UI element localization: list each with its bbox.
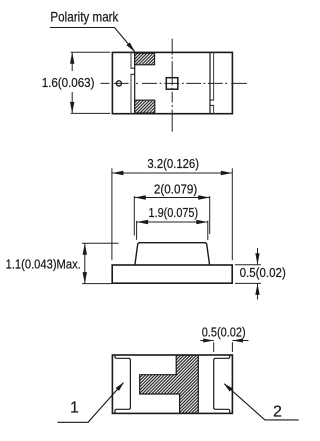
left notch cap upper: [131, 67, 135, 69]
pin 1 arrowhead: [116, 382, 124, 391]
svg-text:1.1(0.043)Max.: 1.1(0.043)Max.: [6, 257, 81, 272]
dimension 0.5 bottom arrow line right: [232, 340, 248, 342]
right inner electrode line: [209, 52, 211, 113]
dimension 2 line: [134, 197, 209, 199]
polarity leader underline: [50, 28, 135, 52]
dimension 0.5 bottom arrow left: [203, 339, 214, 343]
right outer electrode line upper segment: [213, 52, 215, 100]
left outer electrode line upper segment: [130, 52, 132, 68]
dimension 1.1 line: [84, 243, 86, 283]
dimension 1.1 extension line top: [82, 242, 119, 244]
dimension 0.5 side extension line bottom: [235, 282, 261, 284]
dimension 0.5 side arrow line top: [257, 248, 259, 265]
svg-text:3.2(0.126): 3.2(0.126): [147, 156, 199, 171]
dimension 1.1 arrow up: [83, 243, 87, 255]
center die square: [166, 78, 178, 90]
vertical centerline: [171, 39, 173, 132]
pin 2 arrowhead: [224, 383, 233, 391]
dimension 0.5 bottom extension line left: [213, 342, 215, 352]
dimension 1.9 arrow right: [196, 220, 208, 224]
dimension 0.5 bottom extension line right: [231, 342, 233, 352]
dimension 1.6(0.063) arrow down: [70, 102, 74, 114]
svg-text:Polarity mark: Polarity mark: [50, 8, 119, 24]
pin 2 leader: [224, 384, 298, 420]
dimension 0.5 bottom arrow line left: [200, 340, 213, 342]
cathode circle indicator: [116, 81, 121, 86]
dimension 1.6(0.063) arrow up: [70, 52, 74, 64]
horizontal centerline: [101, 82, 247, 84]
svg-text:1.6(0.063): 1.6(0.063): [42, 75, 95, 90]
dimension 1.6(0.063) line lower: [71, 92, 73, 113]
package outline (bottom view): [112, 355, 232, 413]
right notch cap upper: [210, 99, 214, 101]
dimension 2 extension line right: [209, 196, 211, 234]
package outline (top view): [112, 52, 232, 113]
dimension 2 arrow right: [198, 195, 210, 199]
svg-text:1.9(0.075): 1.9(0.075): [149, 205, 199, 220]
svg-text:0.5(0.02): 0.5(0.02): [240, 265, 286, 280]
pin 1 leader: [58, 383, 124, 423]
dimension 0.5 side arrow bottom: [255, 283, 259, 295]
substrate base rect: [112, 265, 232, 283]
dimension 1.9 arrow left: [137, 220, 149, 224]
polarity mark hatched block upper: [135, 53, 155, 65]
dimension 3.2 extension line left: [111, 168, 113, 260]
left outer electrode line lower segment: [130, 74, 132, 113]
dimension 3.2 extension line right: [231, 168, 233, 260]
svg-text:0.5(0.02): 0.5(0.02): [202, 325, 246, 340]
dimension 1.1 arrow down: [83, 272, 87, 284]
dimension 1.9 extension line left: [136, 221, 138, 240]
dimension 2 arrow left: [134, 195, 146, 199]
dimension 1.6(0.063) extension line bottom: [71, 112, 111, 114]
dimension 1.9 line: [137, 221, 208, 223]
left inner electrode line: [134, 52, 136, 113]
dimension 3.2 line: [112, 172, 232, 174]
dimension 3.2 arrow left: [112, 171, 124, 175]
dimension 0.5 side arrow line bottom: [257, 283, 259, 299]
dimension 0.5 side extension line top: [235, 264, 261, 266]
cathode hatched pad: [140, 355, 199, 413]
right outer electrode line lower segment: [213, 105, 215, 113]
polarity mark hatched block lower: [135, 100, 155, 113]
dimension 0.5 bottom arrow right: [232, 339, 243, 343]
dimension 2 extension line left: [133, 196, 135, 236]
svg-text:2(0.079): 2(0.079): [154, 182, 197, 197]
dimension 3.2 arrow right: [221, 171, 233, 175]
svg-text:2: 2: [273, 404, 282, 421]
left terminal outline: [115, 355, 130, 413]
left notch cap lower: [131, 73, 135, 75]
dimension 1.6(0.063) extension line top: [71, 51, 111, 53]
dimension 1.1 extension line bottom: [82, 283, 112, 285]
right terminal outline: [214, 355, 230, 413]
right notch cap lower: [210, 104, 214, 106]
svg-text:1: 1: [70, 399, 79, 416]
dimension 0.5 side arrow top: [255, 253, 259, 264]
dimension 1.6(0.063) line upper: [71, 52, 73, 71]
polarity leader arrowhead: [126, 42, 135, 52]
lens profile: [135, 243, 210, 265]
dimension 1.9 extension line right: [207, 221, 209, 240]
